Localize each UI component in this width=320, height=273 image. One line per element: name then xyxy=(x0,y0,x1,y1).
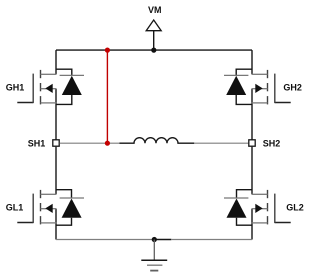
svg-text:GL2: GL2 xyxy=(286,203,304,213)
svg-text:VM: VM xyxy=(148,5,162,15)
junction red bottom xyxy=(105,141,110,146)
gate lead xyxy=(275,102,291,104)
gate bar xyxy=(32,194,34,224)
gate lead xyxy=(275,222,291,224)
inductor L1 xyxy=(119,138,194,144)
wire bottom rail right (gray) xyxy=(171,239,252,241)
svg-text:GH1: GH1 xyxy=(6,83,25,93)
stubs xyxy=(252,193,268,195)
channel dashes xyxy=(267,70,269,78)
ground symbol xyxy=(141,240,167,271)
stubs xyxy=(252,73,268,75)
gate bar xyxy=(274,74,276,104)
wire GL2 drain xyxy=(251,147,253,195)
diode GL1 body xyxy=(56,190,84,226)
wire inductor to SH2 xyxy=(194,142,248,144)
svg-text:GL1: GL1 xyxy=(6,203,24,213)
junction VM dot xyxy=(151,48,156,53)
wire GL1 source xyxy=(55,209,57,240)
diode GH1 body xyxy=(56,69,84,104)
power flag VM xyxy=(146,20,161,50)
junction ground dot xyxy=(152,237,157,242)
diode GL2 body xyxy=(224,190,252,226)
junction red top xyxy=(105,48,110,53)
wire bottom rail ground stub (black) xyxy=(154,239,171,241)
body arrow xyxy=(255,84,262,93)
diode GH2 body xyxy=(224,69,252,104)
wire GH1 source to SH1 xyxy=(55,89,57,140)
wire GL2 source xyxy=(251,209,253,240)
channel dashes xyxy=(40,190,42,198)
channel dashes xyxy=(267,190,269,198)
wire GH2 drain xyxy=(251,50,253,74)
channel dashes xyxy=(40,70,42,78)
transistor GH1 xyxy=(17,70,56,105)
wire GL1 drain xyxy=(55,147,57,195)
wire GH1 drain xyxy=(55,50,57,74)
stubs xyxy=(41,73,57,75)
wire bottom rail left (gray) xyxy=(56,239,154,241)
gate lead xyxy=(17,102,33,104)
svg-text:GH2: GH2 xyxy=(283,83,302,93)
wire SH1 to red junction xyxy=(60,142,120,144)
transistor GL2 xyxy=(252,190,291,225)
wire red highlighted net xyxy=(106,50,108,143)
body arrow xyxy=(45,204,52,213)
body arrow xyxy=(45,84,52,93)
stubs xyxy=(41,193,57,195)
node SH2 port square xyxy=(249,140,255,146)
svg-text:SH1: SH1 xyxy=(28,138,46,148)
wire GH2 source xyxy=(251,89,253,140)
body arrow xyxy=(255,204,262,213)
wire top rail xyxy=(56,49,252,51)
transistor GH2 xyxy=(252,70,291,105)
transistor GL1 xyxy=(17,190,56,225)
gate lead xyxy=(17,222,33,224)
node SH1 port square xyxy=(53,140,59,146)
gate bar xyxy=(274,194,276,224)
gate bar xyxy=(32,74,34,104)
svg-text:SH2: SH2 xyxy=(263,138,281,148)
